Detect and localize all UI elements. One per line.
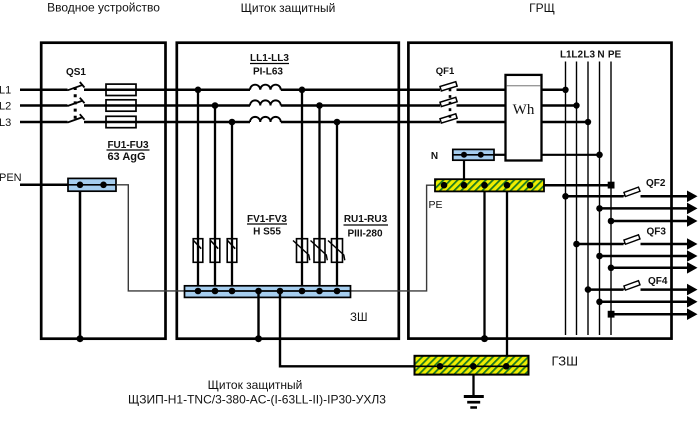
feeder QF2 PE row <box>611 220 688 223</box>
feeder QF4 N row <box>600 301 688 304</box>
dots on ЗШ busbar <box>195 288 202 295</box>
wire RU3 drop <box>336 122 338 291</box>
wire PE busbar to box3 bottom bond <box>483 191 485 338</box>
wire RU1 drop <box>301 90 303 291</box>
PE busbar <box>435 179 544 191</box>
tap dot L3 to RU3 <box>334 119 341 126</box>
wire L1 through box1 <box>84 89 250 92</box>
fuse FV1 striker diagonal <box>194 241 202 249</box>
wire PEN busbar to enclosure bottom <box>79 191 82 339</box>
ЗШ busbar <box>185 286 351 298</box>
svg-text:Щиток защитный: Щиток защитный <box>241 1 336 15</box>
arrester RU1 body <box>297 239 308 263</box>
wire L3 QF1 to Wh <box>457 121 506 124</box>
fuse FU2 body <box>106 100 136 111</box>
wire L1 box2 after coil <box>281 89 440 92</box>
inductor LL2 <box>250 100 281 105</box>
arrester RU2 varistor diagonal <box>311 241 328 261</box>
enclosure box 2 (щиток защитный) <box>177 43 399 339</box>
inductor LL1 <box>250 85 281 90</box>
bus line L3 <box>587 62 589 336</box>
arrester RU1 varistor diagonal <box>293 241 310 261</box>
feeder QF3 PE row <box>611 267 688 270</box>
dot L2 bus <box>573 102 579 108</box>
wire PE busbar to ГЗШ <box>506 191 508 366</box>
arrester RU3 varistor diagonal <box>328 241 345 261</box>
wire FV2 drop <box>214 106 216 292</box>
svg-text:FV1-FV3: FV1-FV3 <box>247 214 287 225</box>
wire Wh to N bus <box>542 154 600 156</box>
ground symbol <box>472 375 474 396</box>
fuse FV3 body <box>227 239 237 263</box>
svg-text:QF2: QF2 <box>646 178 666 189</box>
arrester RU2 body <box>314 239 325 263</box>
wire PEN input <box>20 183 69 186</box>
feeder QF4 PE row <box>611 313 688 316</box>
wire L2 through box1 <box>84 104 250 107</box>
svg-text:ГЗШ: ГЗШ <box>552 354 579 369</box>
wire L3 input <box>20 121 68 124</box>
bus line L1 <box>565 62 567 336</box>
tap dot L2 to RU2 <box>316 102 323 109</box>
svg-text:N: N <box>431 151 438 162</box>
fuse FU3 body <box>106 116 136 127</box>
svg-text:QF3: QF3 <box>647 226 667 237</box>
wire L1 QF1 to Wh <box>457 89 506 92</box>
fuse FV2 body <box>210 239 220 263</box>
enclosure box 1 (вводное устройство) <box>41 43 165 339</box>
PEN busbar (box1) <box>68 178 116 191</box>
wire L3 box2 after coil <box>281 121 440 124</box>
svg-text:L2: L2 <box>0 101 11 113</box>
fuse FV2 striker diagonal <box>211 241 219 249</box>
svg-text:L2: L2 <box>571 50 583 61</box>
svg-text:QS1: QS1 <box>66 67 86 78</box>
disconnector QS1 pole 3 blade <box>68 114 85 122</box>
svg-text:LL1-LL3: LL1-LL3 <box>250 53 289 64</box>
wire L2 QF1 to Wh <box>457 104 506 107</box>
tap dot L2 to FV2 <box>212 102 219 109</box>
arrester RU3 body <box>332 239 343 263</box>
N busbar <box>453 149 494 160</box>
wire L3 through box1 <box>84 121 250 124</box>
wire L2 Wh to bus <box>542 104 577 107</box>
wire L1 input <box>20 89 68 92</box>
svg-text:L1: L1 <box>0 85 11 97</box>
wire ЗШ to ГЗШ <box>280 291 415 366</box>
fuse FV3 striker diagonal <box>228 241 236 249</box>
wire PE busbar to PE bus line <box>544 184 611 187</box>
svg-text:Щиток защитный: Щиток защитный <box>208 378 303 392</box>
enclosure box 3 (ГРЩ) <box>408 43 671 339</box>
QS1 mechanical link (dashed) <box>74 87 77 122</box>
svg-text:L3: L3 <box>0 117 11 129</box>
ГЗШ busbar <box>415 356 529 375</box>
wire N busbar to Wh <box>494 154 506 156</box>
wire L2 input <box>20 104 68 107</box>
tap dot L3 to FV3 <box>229 119 236 126</box>
wire L3 Wh to bus <box>542 121 589 124</box>
svg-text:RU1-RU3: RU1-RU3 <box>344 214 388 225</box>
breaker QF1 pole 2 <box>440 97 457 106</box>
svg-text:L1: L1 <box>560 50 572 61</box>
meter Wh box <box>506 75 542 161</box>
svg-text:ЩЗИП-Н1-TNC/3-380-AC-(I-63LL-I: ЩЗИП-Н1-TNC/3-380-AC-(I-63LL-II)-IP30-УХ… <box>128 393 386 407</box>
svg-text:QF4: QF4 <box>648 276 668 287</box>
junction dot on PEN busbar 2 <box>100 182 107 189</box>
svg-text:ЗШ: ЗШ <box>350 312 368 324</box>
svg-text:PE: PE <box>429 199 443 211</box>
wire FV1 drop <box>197 90 199 291</box>
svg-text:FU1-FU3: FU1-FU3 <box>107 140 149 151</box>
fuse FV1 body <box>193 239 203 263</box>
svg-text:Н S55: Н S55 <box>253 227 281 238</box>
breaker QF1 pole 1 <box>440 82 457 91</box>
wire RU2 drop <box>318 106 320 292</box>
junction dot on PEN busbar 1 <box>77 182 84 189</box>
feeder QF3 N row <box>600 255 688 258</box>
feeder QF4 phase row <box>588 288 624 291</box>
svg-text:63 AgG: 63 AgG <box>107 151 145 163</box>
svg-text:PEN: PEN <box>0 172 22 184</box>
thin PE link wire: PEN bar to ЗШ to PE bar <box>116 185 435 291</box>
bond dot on box1 bottom <box>77 335 84 342</box>
wire L1 Wh to bus <box>542 89 566 92</box>
dot L3 bus <box>585 119 591 125</box>
svg-text:PI-L63: PI-L63 <box>253 67 283 78</box>
feeder QF3 phase row <box>577 243 624 246</box>
bus line PE <box>610 62 612 336</box>
svg-text:L3: L3 <box>583 50 595 61</box>
feeder QF2 phase row <box>566 195 624 198</box>
disconnector QS1 pole 1 blade <box>68 82 85 90</box>
QF1 mechanical link dashed <box>449 89 452 120</box>
svg-text:РIII-280: РIII-280 <box>347 229 382 240</box>
feeder QF2 N row <box>600 207 688 210</box>
tap dot L1 to RU1 <box>299 87 306 94</box>
square junction PE <box>608 182 615 189</box>
bus line L2 <box>576 62 578 336</box>
dot L1 bus <box>562 87 568 93</box>
bus line N <box>599 62 601 336</box>
breaker QF1 pole 3 <box>440 114 457 123</box>
tap dot L1 to FV1 <box>195 87 202 94</box>
wire ЗШ to box2 enclosure bottom <box>257 291 259 339</box>
svg-text:QF1: QF1 <box>436 66 455 77</box>
bond dot on box2 bottom <box>255 335 262 342</box>
svg-text:Вводное устройство: Вводное устройство <box>47 1 160 15</box>
wire N busbar bond to PE busbar <box>463 160 465 179</box>
svg-text:N: N <box>597 50 604 61</box>
inductor LL3 <box>250 117 281 122</box>
svg-text:PE: PE <box>608 50 622 61</box>
fuse FU1 body <box>106 84 136 95</box>
svg-text:Wh: Wh <box>513 102 535 118</box>
wire FV3 drop <box>231 122 233 291</box>
disconnector QS1 pole 2 blade <box>68 98 85 106</box>
wire L2 box2 after coil <box>281 104 440 107</box>
svg-text:ГРЩ: ГРЩ <box>529 1 555 15</box>
